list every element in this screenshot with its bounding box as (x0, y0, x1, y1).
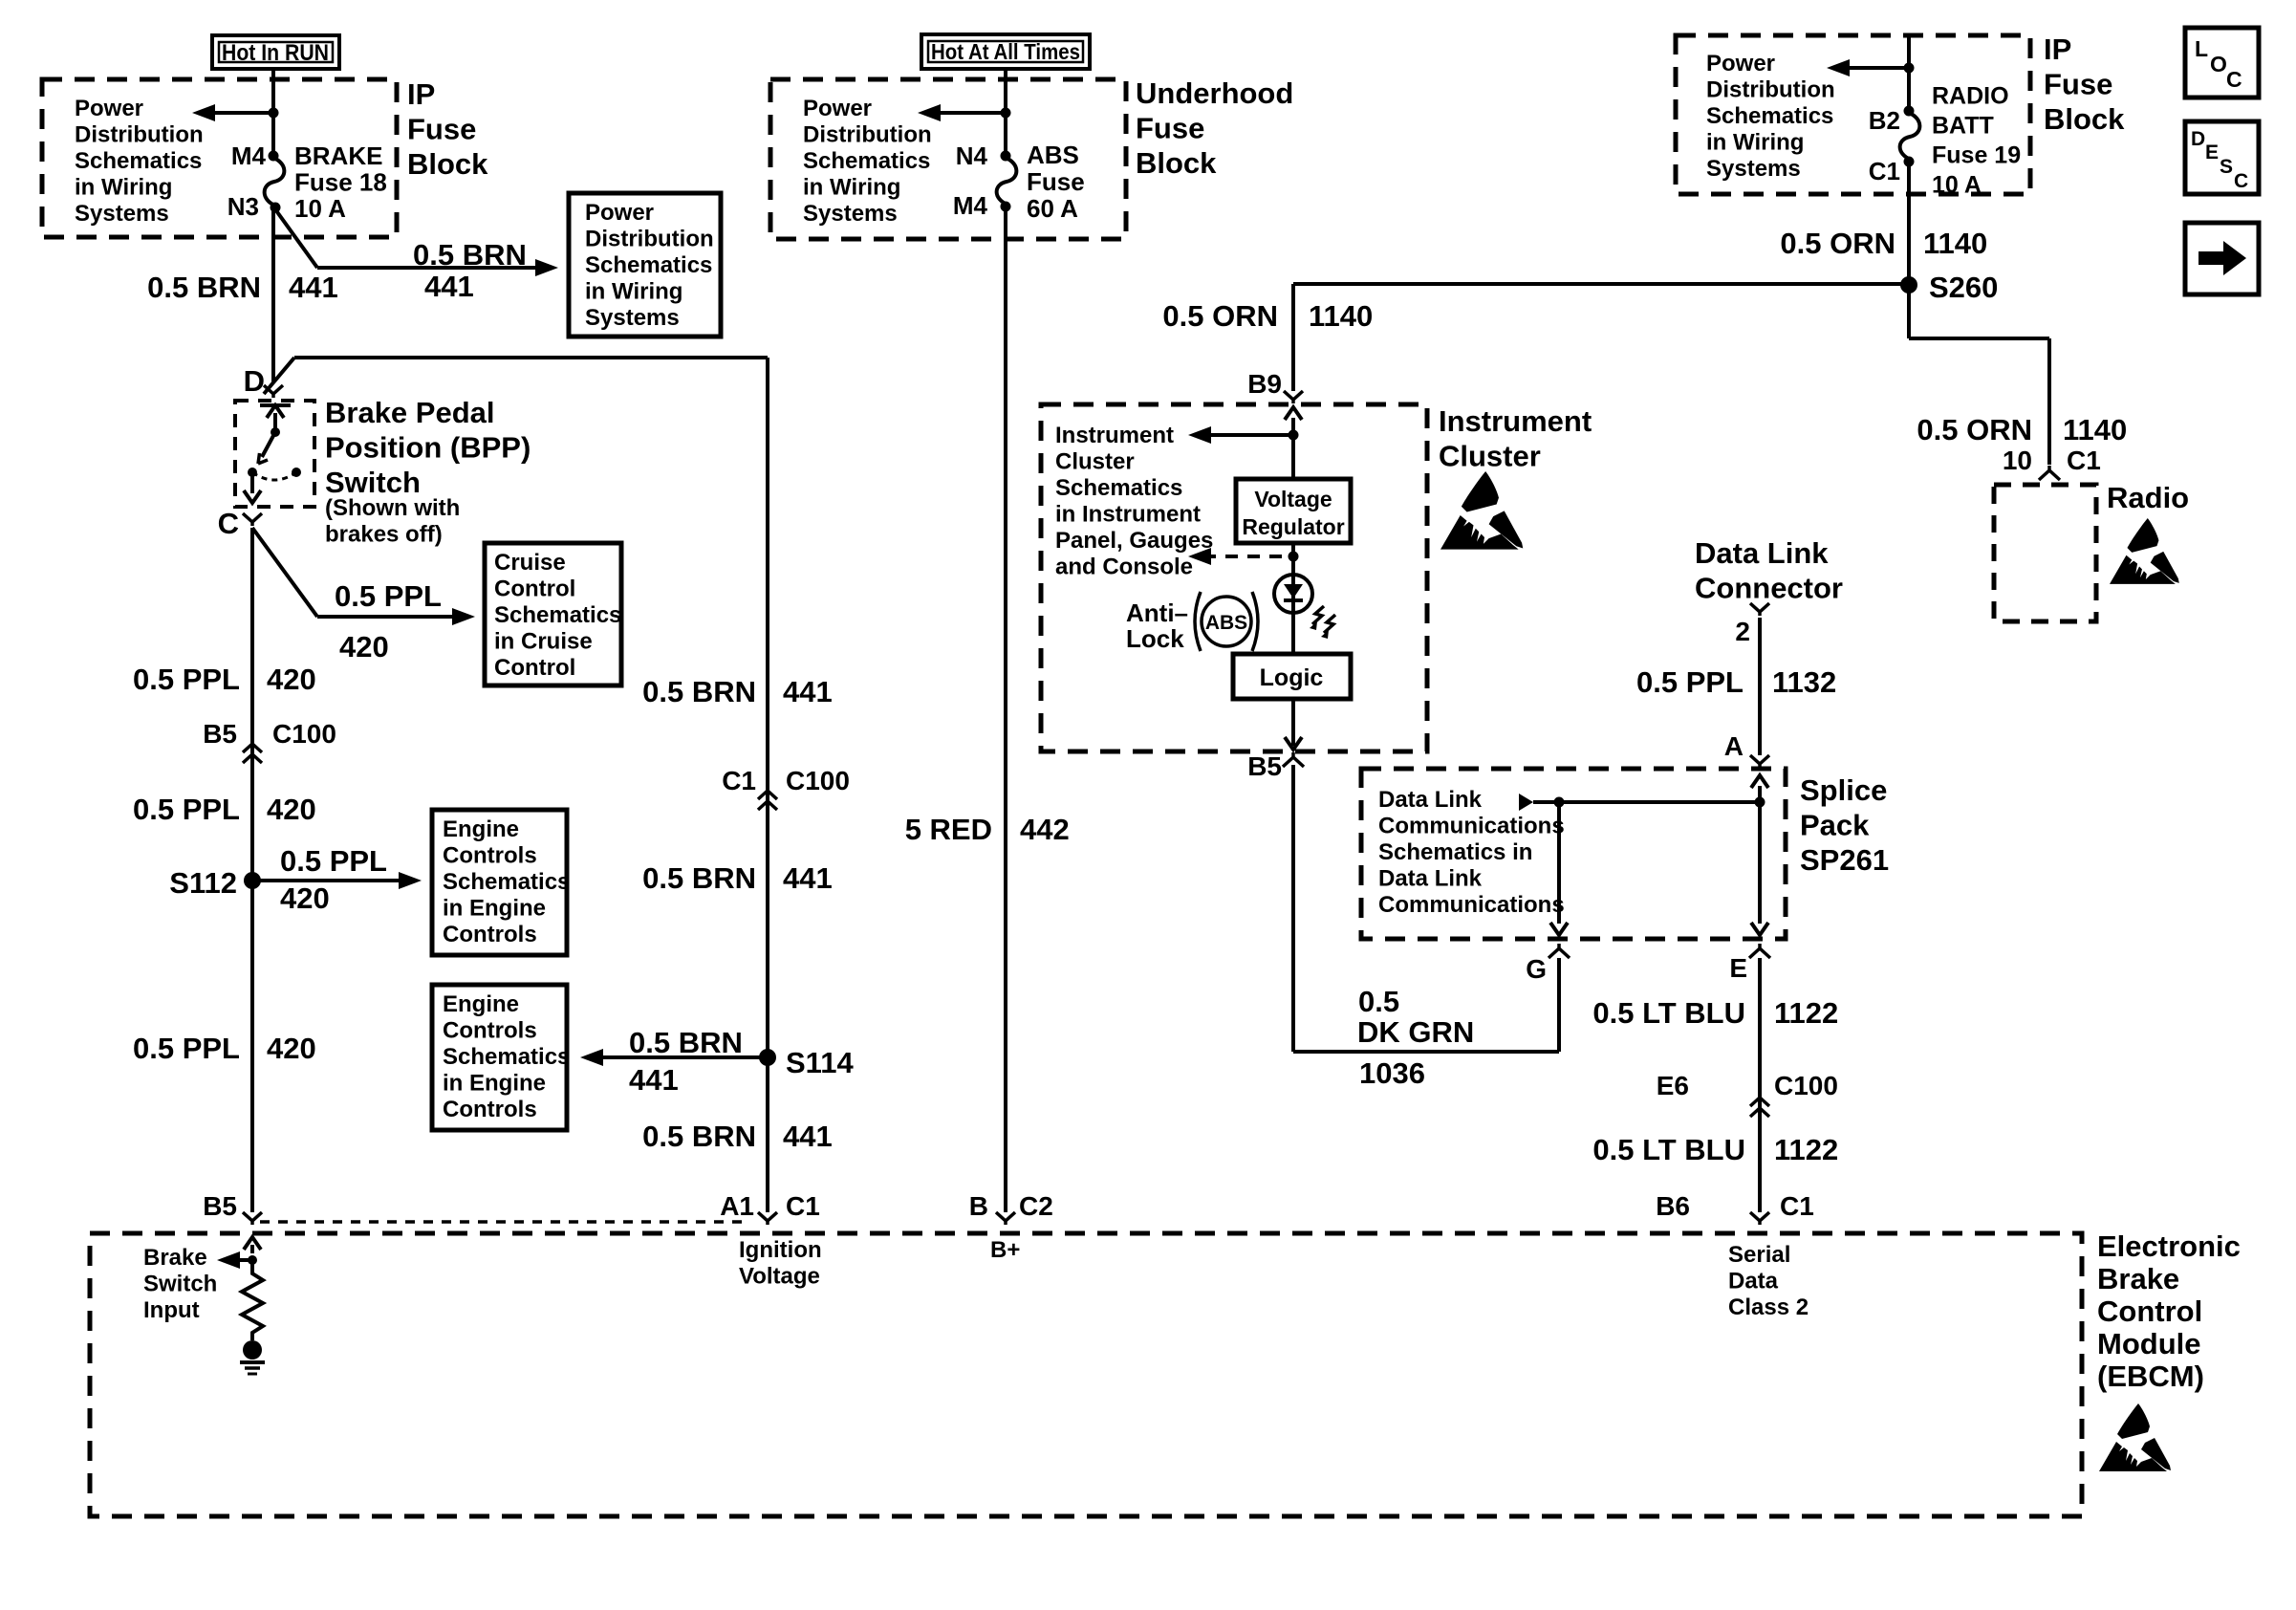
svg-text:N4: N4 (956, 141, 988, 170)
fuse 18 terminal dot N3 (271, 203, 281, 213)
connector symbol G (1549, 944, 1570, 958)
svg-text:Control: Control (494, 655, 575, 681)
BPP switch fixed contact bar (260, 403, 291, 407)
svg-text:Schematics: Schematics (1055, 475, 1182, 501)
svg-text:441: 441 (783, 861, 833, 895)
wire S114 branch to engine controls (601, 1055, 768, 1059)
splice bus node G (1554, 797, 1565, 808)
wire bus to A (1758, 786, 1762, 802)
wire B9 into cluster (1291, 418, 1295, 479)
svg-text:0.5 ORN: 0.5 ORN (1162, 299, 1278, 333)
svg-text:1140: 1140 (1309, 299, 1373, 333)
ABS telltale circle (1202, 597, 1251, 646)
svg-text:Brake: Brake (2097, 1262, 2179, 1295)
svg-text:Anti–: Anti– (1126, 598, 1188, 627)
svg-text:ABS: ABS (1027, 141, 1079, 169)
ESD symbol radio (2110, 518, 2179, 584)
junction node in underhood fuse block (1001, 108, 1011, 119)
BPP switch lower-right contact dot (292, 468, 301, 477)
svg-text:Fuse 19: Fuse 19 (1932, 142, 2021, 169)
svg-text:Class 2: Class 2 (1728, 1295, 1809, 1320)
svg-text:Communications: Communications (1378, 813, 1565, 838)
connector symbol A1 (758, 1212, 777, 1225)
svg-text:Electronic: Electronic (2097, 1229, 2241, 1263)
svg-text:441: 441 (289, 271, 338, 304)
svg-text:Hot At All Times: Hot At All Times (931, 39, 1080, 64)
splice pack bus (1533, 800, 1760, 804)
svg-text:G: G (1526, 954, 1547, 984)
svg-text:Data: Data (1728, 1268, 1779, 1294)
inline connector C100 (right) (1750, 1098, 1769, 1106)
engine controls schematics box 1 (solid) (432, 810, 567, 955)
arrow to Power Distribution Schematics (left) (212, 111, 273, 115)
svg-text:441: 441 (783, 1120, 833, 1153)
svg-text:L: L (2195, 36, 2208, 61)
ESD symbol instrument cluster (1440, 471, 1523, 550)
dashed arrow to gauges (1208, 555, 1282, 558)
fuse 18 terminal dot M4 (269, 151, 279, 162)
legend box DESC (2185, 121, 2259, 194)
wire DLC to splice pack A (1758, 618, 1762, 755)
connector symbol pin 2 (1750, 603, 1769, 616)
svg-text:5 RED: 5 RED (905, 813, 992, 846)
svg-text:M4: M4 (231, 141, 267, 170)
svg-text:IP: IP (407, 77, 435, 111)
svg-text:0.5 BRN: 0.5 BRN (629, 1026, 743, 1059)
svg-text:Communications: Communications (1378, 892, 1565, 918)
svg-text:420: 420 (339, 630, 389, 664)
svg-text:C2: C2 (1019, 1191, 1053, 1221)
connector symbol B5 at EBCM (243, 1212, 262, 1225)
svg-text:0.5 ORN: 0.5 ORN (1780, 227, 1895, 260)
indicator LED light arrows (1312, 606, 1324, 624)
svg-text:Pack: Pack (1800, 808, 1870, 841)
svg-text:brakes off): brakes off) (325, 521, 443, 547)
svg-text:1122: 1122 (1774, 996, 1838, 1030)
connector C symbol (243, 513, 262, 526)
svg-text:Connector: Connector (1695, 571, 1843, 604)
fuse F18 BRAKE 10A symbol (265, 158, 285, 206)
svg-text:Voltage: Voltage (739, 1263, 820, 1289)
svg-text:Systems: Systems (1706, 156, 1801, 182)
indicator LED diode (1284, 584, 1303, 598)
svg-text:C: C (218, 507, 239, 540)
svg-text:Block: Block (407, 147, 488, 181)
splice pack SP261 dashed box (1361, 769, 1786, 939)
svg-text:Schematics: Schematics (1706, 103, 1833, 129)
BPP switch output arrow (250, 472, 254, 493)
svg-text:Position (BPP): Position (BPP) (325, 430, 531, 464)
svg-text:Controls: Controls (443, 1097, 537, 1122)
svg-text:Hot In RUN: Hot In RUN (222, 40, 329, 66)
wire D branch to ignition-voltage run (264, 358, 294, 394)
svg-text:Brake Pedal: Brake Pedal (325, 396, 495, 429)
svg-text:in Wiring: in Wiring (803, 174, 900, 200)
wire S260 to B9 (1293, 282, 1909, 286)
svg-text:B2: B2 (1869, 106, 1900, 135)
svg-text:D: D (2191, 128, 2205, 150)
svg-text:1122: 1122 (1774, 1133, 1838, 1166)
svg-text:in Wiring: in Wiring (75, 174, 172, 200)
connector symbol B5 (cluster) (1283, 752, 1304, 767)
radio fuse terminal dot B2 (1904, 106, 1915, 117)
svg-text:0.5 PPL: 0.5 PPL (1636, 665, 1744, 699)
svg-text:C: C (2226, 67, 2242, 92)
svg-text:0.5 PPL: 0.5 PPL (133, 793, 240, 826)
IP fuse block dashed box (right) (1676, 35, 2030, 194)
svg-text:C100: C100 (272, 719, 336, 749)
svg-text:Cluster: Cluster (1055, 448, 1135, 474)
wire logic to B5 (1291, 699, 1295, 746)
svg-text:BATT: BATT (1932, 113, 1994, 140)
fuse RADIO BATT 19 symbol (1900, 113, 1920, 160)
svg-text:10 A: 10 A (294, 194, 346, 223)
svg-text:0.5 BRN: 0.5 BRN (147, 271, 261, 304)
svg-text:B+: B+ (990, 1237, 1020, 1263)
svg-text:N3: N3 (227, 192, 259, 221)
svg-text:Fuse: Fuse (2044, 67, 2112, 100)
svg-text:B5: B5 (203, 1191, 237, 1221)
engine controls schematics box 2 (solid) (432, 985, 567, 1130)
svg-text:ABS: ABS (1205, 612, 1247, 634)
wire vertical drop to A1 (766, 358, 769, 1212)
indicator LED circle (1274, 575, 1312, 613)
svg-text:10: 10 (2003, 446, 2032, 475)
connector symbol B6 (1750, 1212, 1769, 1225)
svg-text:M4: M4 (953, 191, 988, 220)
power distribution schematics box (solid) (569, 193, 721, 337)
svg-text:SP261: SP261 (1800, 843, 1889, 877)
svg-text:in Cruise: in Cruise (494, 628, 593, 654)
svg-text:A: A (1724, 731, 1744, 761)
junction node brake switch input (248, 1255, 257, 1265)
radio fuse terminal dot C1 (1904, 157, 1915, 167)
svg-text:Engine: Engine (443, 816, 519, 842)
svg-text:Control: Control (2097, 1295, 2202, 1328)
svg-text:Switch: Switch (325, 466, 421, 499)
svg-text:Brake: Brake (143, 1245, 207, 1271)
arrow to Instrument Cluster Schematics (1208, 433, 1293, 437)
svg-text:Ignition: Ignition (739, 1237, 822, 1263)
wire brake switch input (250, 1245, 254, 1253)
svg-text:E: E (1729, 953, 1747, 983)
wire C down to B5 (EBCM) (250, 528, 254, 1212)
resistor brake switch pull-down (242, 1260, 263, 1340)
svg-text:Schematics: Schematics (443, 1044, 570, 1070)
svg-text:Cruise: Cruise (494, 550, 566, 576)
svg-text:(EBCM): (EBCM) (2097, 1360, 2204, 1393)
svg-text:1140: 1140 (2063, 413, 2127, 446)
splice S112 (244, 872, 261, 889)
svg-text:in Wiring: in Wiring (585, 278, 682, 304)
cruise control schematics box (solid) (485, 543, 621, 685)
legend box LOC (2185, 28, 2259, 98)
svg-text:Block: Block (2044, 102, 2125, 136)
connector symbol B (996, 1212, 1015, 1225)
svg-text:C: C (2234, 170, 2248, 192)
BPP switch upper terminal arrow (273, 413, 277, 432)
splice bus node E (1755, 797, 1765, 808)
radio dashed box (1994, 485, 2096, 621)
svg-text:Data Link: Data Link (1378, 787, 1483, 813)
svg-text:Schematics: Schematics (494, 602, 621, 628)
svg-text:0.5 LT BLU: 0.5 LT BLU (1592, 996, 1745, 1030)
svg-text:BRAKE: BRAKE (294, 141, 382, 170)
svg-text:Data Link: Data Link (1378, 865, 1483, 891)
svg-text:Instrument: Instrument (1439, 404, 1592, 438)
svg-text:420: 420 (267, 663, 316, 696)
svg-text:441: 441 (629, 1063, 679, 1097)
BPP switch dashed travel arc (252, 472, 296, 480)
arrow to Power Distribution Schematics (underhood) (938, 111, 1006, 115)
svg-text:C100: C100 (786, 766, 850, 795)
svg-text:and Console: and Console (1055, 554, 1193, 579)
svg-text:C1: C1 (2067, 446, 2101, 475)
svg-text:0.5 BRN: 0.5 BRN (642, 675, 756, 708)
svg-text:420: 420 (267, 793, 316, 826)
svg-text:Fuse 18: Fuse 18 (294, 168, 387, 197)
svg-text:Block: Block (1136, 146, 1217, 180)
voltage regulator box (1236, 479, 1351, 543)
junction node cluster feed (1289, 430, 1299, 441)
svg-text:441: 441 (424, 270, 474, 303)
inline connector C100 (middle) (758, 791, 777, 799)
arrow to Power Distribution Schematics (right) (1847, 66, 1909, 70)
svg-text:Power: Power (803, 96, 872, 121)
svg-text:B: B (969, 1191, 988, 1221)
logic box (1233, 654, 1351, 699)
svg-text:0.5 PPL: 0.5 PPL (280, 844, 387, 878)
svg-text:1036: 1036 (1359, 1056, 1425, 1090)
svg-text:in Engine: in Engine (443, 895, 546, 921)
svg-text:0.5: 0.5 (1358, 985, 1399, 1018)
svg-text:Regulator: Regulator (1242, 514, 1344, 539)
wire branch N3 to power distribution box (275, 209, 317, 268)
connector symbol A (1750, 755, 1769, 768)
svg-text:Power: Power (1706, 51, 1775, 76)
svg-text:RADIO: RADIO (1932, 83, 2009, 110)
svg-text:Controls: Controls (443, 922, 537, 947)
svg-text:E: E (2205, 141, 2219, 163)
svg-text:442: 442 (1020, 813, 1070, 846)
svg-text:Fuse: Fuse (1136, 111, 1204, 144)
svg-text:0.5 PPL: 0.5 PPL (133, 663, 240, 696)
svg-text:B6: B6 (1656, 1191, 1690, 1221)
brake pedal position switch dashed box (235, 401, 314, 507)
svg-text:Distribution: Distribution (585, 226, 714, 251)
ESD symbol EBCM (2099, 1403, 2171, 1471)
svg-text:Panel, Gauges: Panel, Gauges (1055, 528, 1213, 554)
wire fuse N3 down to connector D (271, 207, 275, 382)
svg-text:Instrument: Instrument (1055, 423, 1174, 448)
svg-text:C1: C1 (722, 766, 756, 795)
svg-text:Schematics: Schematics (803, 148, 930, 174)
svg-text:Distribution: Distribution (75, 121, 204, 147)
svg-text:0.5 BRN: 0.5 BRN (642, 861, 756, 895)
connector symbol E (1749, 944, 1770, 958)
underhood fuse block dashed box (770, 79, 1126, 239)
svg-text:B5: B5 (203, 719, 237, 749)
svg-text:C1: C1 (1780, 1191, 1814, 1221)
svg-text:Engine: Engine (443, 991, 519, 1017)
svg-text:in Engine: in Engine (443, 1070, 546, 1096)
ABS telltale parens (1195, 592, 1201, 651)
svg-text:Underhood: Underhood (1136, 76, 1293, 110)
svg-text:Controls: Controls (443, 1017, 537, 1043)
svg-text:Systems: Systems (803, 201, 898, 227)
svg-text:B9: B9 (1247, 369, 1282, 399)
svg-text:Input: Input (143, 1297, 200, 1323)
svg-text:C100: C100 (1774, 1071, 1838, 1100)
svg-text:Serial: Serial (1728, 1242, 1790, 1268)
svg-text:Splice: Splice (1800, 773, 1887, 807)
svg-text:420: 420 (267, 1032, 316, 1065)
connector symbol B9 (1284, 391, 1303, 403)
svg-text:D: D (244, 364, 265, 398)
svg-text:0.5 ORN: 0.5 ORN (1917, 413, 2032, 446)
junction node in right IP fuse block (1904, 63, 1915, 74)
svg-text:Power: Power (585, 200, 654, 226)
ABS fuse terminal dot N4 (1001, 151, 1011, 162)
power label box Hot In RUN (212, 35, 339, 69)
svg-text:0.5 PPL: 0.5 PPL (335, 579, 442, 613)
svg-text:Fuse: Fuse (1027, 167, 1085, 196)
EBCM connector boundary dashed line (260, 1220, 749, 1224)
power label box Hot At All Times (921, 34, 1090, 69)
svg-text:E6: E6 (1657, 1071, 1689, 1100)
BPP switch pivot dot (271, 427, 280, 437)
ground symbol (243, 1340, 262, 1360)
svg-text:S112: S112 (169, 866, 237, 900)
junction node below regulator (1289, 552, 1299, 562)
legend box arrow (2185, 223, 2259, 294)
svg-text:Distribution: Distribution (1706, 76, 1835, 102)
svg-text:S: S (2220, 156, 2233, 178)
BPP switch movable arm (262, 432, 275, 457)
svg-text:1132: 1132 (1772, 665, 1836, 699)
wire B5 cluster to splice pack G (1291, 765, 1295, 1052)
svg-text:Schematics: Schematics (443, 869, 570, 895)
ABS fuse terminal dot M4 (1001, 202, 1011, 212)
wire fuse 19 to S260 (1907, 162, 1911, 285)
BPP switch lower-left contact dot (248, 468, 257, 477)
svg-text:in Instrument: in Instrument (1055, 501, 1201, 527)
wire C diagonal branch to cruise control (252, 528, 317, 617)
svg-text:A1: A1 (720, 1191, 754, 1221)
wire E to B6 (1758, 958, 1762, 1212)
wire horizontal run to A1 drop (294, 356, 768, 359)
wire bus to G out (1557, 802, 1561, 924)
svg-text:Schematics: Schematics (75, 148, 202, 174)
svg-text:S114: S114 (786, 1046, 854, 1079)
svg-text:O: O (2210, 52, 2227, 76)
svg-text:0.5 BRN: 0.5 BRN (642, 1120, 756, 1153)
svg-text:(Shown with: (Shown with (325, 495, 460, 521)
wire Hot At All Times to ABS fuse (1004, 69, 1007, 156)
svg-text:Systems: Systems (75, 201, 169, 227)
svg-text:Fuse: Fuse (407, 112, 476, 145)
svg-text:S260: S260 (1929, 271, 1998, 304)
svg-text:Lock: Lock (1126, 624, 1184, 653)
svg-text:60 A: 60 A (1027, 194, 1078, 223)
wire S260 to radio C1 (1907, 285, 1911, 338)
svg-text:Schematics in: Schematics in (1378, 839, 1532, 865)
svg-text:Cluster: Cluster (1439, 439, 1541, 472)
fuse ABS 60A symbol (997, 158, 1017, 205)
svg-text:441: 441 (783, 675, 833, 708)
svg-text:Systems: Systems (585, 305, 680, 331)
svg-text:DK GRN: DK GRN (1357, 1015, 1474, 1049)
wire regulator to logic (1291, 543, 1295, 654)
svg-text:Controls: Controls (443, 842, 537, 868)
svg-text:Distribution: Distribution (803, 121, 932, 147)
svg-text:Data Link: Data Link (1695, 536, 1829, 570)
svg-text:0.5 BRN: 0.5 BRN (413, 238, 527, 272)
connector symbol radio pin 10 (2039, 466, 2060, 480)
connector D symbol (264, 385, 283, 398)
svg-text:Control: Control (494, 576, 575, 601)
svg-text:1140: 1140 (1923, 227, 1987, 260)
svg-text:Module: Module (2097, 1327, 2201, 1360)
svg-text:B5: B5 (1247, 751, 1282, 781)
svg-text:IP: IP (2044, 33, 2071, 66)
svg-text:Radio: Radio (2107, 481, 2189, 514)
instrument cluster dashed box (1041, 404, 1427, 751)
inline connector C100 (left) (243, 744, 262, 752)
svg-text:C1: C1 (786, 1191, 820, 1221)
IP fuse block dashed box (42, 79, 397, 237)
svg-text:0.5 PPL: 0.5 PPL (133, 1032, 240, 1065)
wire ABS fuse to EBCM pin B (1004, 207, 1007, 1212)
arrow to Brake text (237, 1258, 252, 1262)
svg-text:Logic: Logic (1260, 664, 1324, 691)
splice S114 (759, 1049, 776, 1066)
wire S112 branch to engine controls (252, 879, 401, 882)
svg-text:Schematics: Schematics (585, 252, 712, 278)
splice S260 (1900, 276, 1917, 294)
svg-text:420: 420 (280, 881, 330, 915)
svg-text:0.5 LT BLU: 0.5 LT BLU (1592, 1133, 1745, 1166)
svg-text:10 A: 10 A (1932, 172, 1982, 199)
wire bus to E out (1758, 802, 1762, 924)
svg-text:C1: C1 (1869, 157, 1900, 185)
EBCM dashed box (90, 1233, 2082, 1516)
svg-text:2: 2 (1735, 617, 1750, 646)
svg-text:Voltage: Voltage (1254, 487, 1332, 511)
svg-text:Power: Power (75, 96, 143, 121)
junction node in IP fuse block (269, 108, 279, 119)
svg-text:Switch: Switch (143, 1271, 217, 1296)
wire top stub to radio fuse (1907, 35, 1911, 111)
wire from Hot In RUN to fuse 18 (271, 69, 275, 156)
svg-text:in Wiring: in Wiring (1706, 129, 1804, 155)
